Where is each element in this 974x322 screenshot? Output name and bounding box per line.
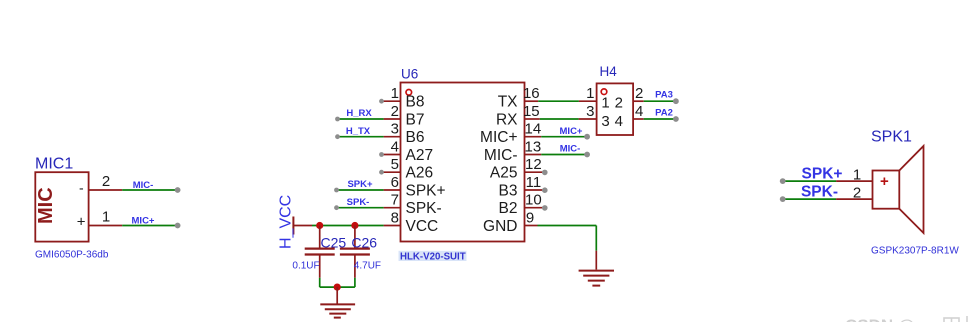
U6 pin 14 stub bbox=[525, 136, 542, 138]
svg-text:H_VCC: H_VCC bbox=[278, 195, 295, 249]
svg-text:H4: H4 bbox=[600, 64, 618, 79]
U6 pin 2 stub bbox=[384, 118, 401, 120]
junction VCC-C25 bbox=[316, 222, 323, 229]
U6 pin1 marker circle bbox=[406, 90, 412, 96]
wire net SPK- (SPK1) bbox=[783, 198, 836, 200]
svg-text:RX: RX bbox=[496, 111, 518, 128]
ground symbol (GND pin) bbox=[579, 271, 614, 286]
svg-text:B8: B8 bbox=[406, 94, 425, 111]
svg-text:MIC: MIC bbox=[35, 187, 57, 224]
svg-text:SPK-: SPK- bbox=[347, 197, 370, 208]
svg-text:SPK-: SPK- bbox=[406, 200, 442, 217]
svg-text:H_RX: H_RX bbox=[346, 108, 372, 119]
svg-text:GSPK2307P-8R1W: GSPK2307P-8R1W bbox=[871, 246, 959, 257]
U6 pin 1 dot bbox=[379, 99, 384, 104]
svg-text:MIC-: MIC- bbox=[484, 147, 518, 164]
U6 pin 10 stub bbox=[525, 207, 543, 209]
node MIC- right dot bbox=[584, 152, 590, 158]
U6 pin 15 stub bbox=[525, 118, 540, 120]
svg-text:2: 2 bbox=[391, 103, 399, 120]
MIC1 pin 2 stub bbox=[89, 189, 123, 191]
svg-text:3: 3 bbox=[601, 113, 609, 130]
svg-text:4: 4 bbox=[635, 103, 643, 120]
node MIC+ end dot bbox=[175, 223, 181, 229]
svg-text:4: 4 bbox=[615, 113, 623, 130]
wire net MIC- bbox=[122, 189, 177, 191]
U6 pin 5 stub bbox=[383, 171, 401, 173]
svg-text:4.7UF: 4.7UF bbox=[354, 261, 381, 272]
U6 pin 13 stub bbox=[525, 154, 542, 156]
svg-text:SPK+: SPK+ bbox=[406, 182, 446, 199]
svg-text:1: 1 bbox=[102, 209, 110, 226]
wire net MIC- (U6 side) bbox=[541, 154, 586, 156]
SPK1 pin 1 stub bbox=[836, 180, 872, 182]
svg-text:1: 1 bbox=[601, 95, 609, 112]
svg-text:MIC+: MIC+ bbox=[480, 129, 517, 146]
ground symbol (caps) bbox=[320, 304, 355, 317]
U6 pin 12 stub bbox=[525, 171, 543, 173]
H4 pin 2 stub bbox=[633, 100, 644, 102]
wire GND vertical green bbox=[595, 226, 597, 251]
wire net MIC+ (U6 side) bbox=[541, 136, 586, 138]
component MIC1 body bbox=[35, 172, 88, 241]
svg-text:U6: U6 bbox=[401, 67, 418, 82]
wire junction to ground bbox=[336, 287, 338, 303]
U6 pin 7 stub bbox=[384, 207, 401, 209]
svg-text:5: 5 bbox=[391, 156, 399, 173]
svg-text:VCC: VCC bbox=[406, 218, 439, 235]
svg-text:-: - bbox=[79, 180, 84, 196]
wire VCC rail bbox=[312, 225, 384, 227]
svg-text:13: 13 bbox=[525, 139, 542, 156]
wire C26 lower bbox=[354, 278, 356, 287]
node SPK+ dot bbox=[334, 188, 339, 193]
wire GND horizontal bbox=[538, 225, 597, 227]
svg-text:9: 9 bbox=[526, 210, 534, 227]
wire stub into H4 pin1 bbox=[579, 100, 597, 102]
U6 pin 4 stub bbox=[383, 154, 401, 156]
svg-text:3: 3 bbox=[391, 121, 399, 138]
U6 pin 9 stub bbox=[525, 225, 538, 227]
wire net SPK- (U6) bbox=[337, 207, 384, 209]
wire GND vertical red bbox=[595, 251, 597, 270]
svg-text:10: 10 bbox=[525, 192, 542, 209]
svg-text:4: 4 bbox=[391, 139, 399, 156]
svg-text:GND: GND bbox=[483, 218, 517, 235]
svg-text:2: 2 bbox=[853, 185, 861, 202]
wire cap ground bus bbox=[320, 286, 355, 288]
svg-text:7: 7 bbox=[391, 192, 399, 209]
svg-text:A25: A25 bbox=[490, 165, 518, 182]
U6 pin 8 stub bbox=[384, 225, 401, 227]
svg-text:A27: A27 bbox=[406, 147, 434, 164]
node PA3 dot bbox=[673, 98, 679, 104]
op chip U6 body bbox=[401, 83, 525, 242]
value HLK-V20-SUIT highlight bbox=[399, 251, 467, 261]
wire net H_TX bbox=[338, 136, 384, 138]
svg-text:MIC+: MIC+ bbox=[560, 126, 583, 137]
svg-text:H_TX: H_TX bbox=[346, 126, 371, 137]
svg-text:1: 1 bbox=[586, 85, 594, 102]
svg-text:2: 2 bbox=[635, 85, 643, 102]
connector H4 body bbox=[597, 83, 634, 135]
wire C25 lower bbox=[319, 278, 321, 287]
svg-text:PA2: PA2 bbox=[655, 107, 673, 118]
wire net MIC+ bbox=[122, 225, 177, 227]
node MIC- end dot bbox=[175, 187, 181, 193]
svg-text:PA3: PA3 bbox=[655, 90, 673, 101]
svg-text:11: 11 bbox=[526, 174, 542, 191]
svg-text:+: + bbox=[880, 173, 889, 190]
svg-text:C26: C26 bbox=[351, 235, 377, 251]
wire net SPK+ (U6) bbox=[337, 189, 384, 191]
svg-text:16: 16 bbox=[523, 85, 540, 102]
svg-text:MIC+: MIC+ bbox=[132, 215, 155, 226]
U6 pin 3 stub bbox=[384, 136, 401, 138]
power port H_VCC lead bbox=[293, 225, 312, 227]
capacitor C26 bbox=[340, 226, 370, 278]
node PA2 dot bbox=[673, 116, 679, 122]
node H_RX dot bbox=[335, 117, 340, 122]
U6 pin 4 dot bbox=[379, 152, 384, 157]
svg-text:TX: TX bbox=[498, 94, 518, 111]
node SPK- dot bbox=[334, 205, 339, 210]
capacitor C25 bbox=[305, 226, 335, 278]
svg-text:B7: B7 bbox=[406, 111, 425, 128]
svg-text:8: 8 bbox=[391, 210, 399, 227]
svg-text:0.1UF: 0.1UF bbox=[292, 260, 319, 271]
node H_TX dot bbox=[335, 134, 340, 139]
svg-text:SPK1: SPK1 bbox=[871, 129, 912, 146]
H4 pin1 marker circle bbox=[601, 89, 607, 95]
svg-text:14: 14 bbox=[525, 121, 542, 138]
H4 pin 4 stub bbox=[633, 118, 644, 120]
MIC1 pin 1 stub bbox=[89, 225, 123, 227]
U6 pin 12 dot bbox=[542, 170, 548, 176]
svg-text:3: 3 bbox=[586, 103, 594, 120]
wire net PA3 bbox=[644, 100, 675, 102]
svg-text:12: 12 bbox=[525, 156, 542, 173]
U6 pin 10 dot bbox=[542, 205, 548, 211]
svg-text:GMI6050P-36db: GMI6050P-36db bbox=[35, 250, 109, 261]
U6 pin 6 stub bbox=[384, 189, 401, 191]
svg-text:6: 6 bbox=[391, 174, 399, 191]
wire net SPK+ (SPK1) bbox=[783, 180, 836, 182]
speaker SPK1 body bbox=[873, 146, 924, 233]
U6 pin 1 stub bbox=[383, 100, 401, 102]
wire net PA2 bbox=[644, 118, 675, 120]
svg-text:SPK+: SPK+ bbox=[802, 166, 843, 183]
node MIC+ right dot bbox=[584, 134, 590, 140]
wire stub into H4 pin3 bbox=[579, 118, 597, 120]
U6 pin 11 stub bbox=[525, 189, 543, 191]
svg-text:1: 1 bbox=[391, 85, 399, 102]
wire U6 pin16 to H4 pin1 bbox=[538, 100, 579, 102]
svg-text:B3: B3 bbox=[499, 182, 518, 199]
svg-text:A26: A26 bbox=[406, 165, 434, 182]
junction VCC-C26 bbox=[351, 222, 358, 229]
wire net H_RX bbox=[338, 118, 384, 120]
SPK1 pin 2 stub bbox=[836, 198, 872, 200]
svg-text:SPK+: SPK+ bbox=[347, 179, 373, 190]
svg-text:1: 1 bbox=[853, 167, 861, 184]
svg-text:B6: B6 bbox=[406, 129, 425, 146]
svg-text:2: 2 bbox=[615, 95, 623, 112]
svg-text:CSDN @: CSDN @ bbox=[845, 316, 914, 322]
svg-text:MIC-: MIC- bbox=[560, 144, 581, 155]
svg-text:SPK-: SPK- bbox=[801, 184, 838, 201]
svg-text:HLK-V20-SUIT: HLK-V20-SUIT bbox=[400, 251, 466, 262]
junction cap ground bbox=[334, 284, 341, 291]
svg-text:B2: B2 bbox=[499, 200, 518, 217]
svg-text:2: 2 bbox=[102, 173, 110, 190]
wire U6 pin15 to H4 pin3 bbox=[540, 118, 579, 120]
power port H_VCC bar bbox=[292, 217, 294, 235]
U6 pin 11 dot bbox=[542, 187, 548, 193]
U6 pin 5 dot bbox=[379, 170, 384, 175]
node SPK+ left dot bbox=[780, 178, 786, 184]
svg-text:MIC-: MIC- bbox=[133, 180, 154, 191]
watermark CJK box glyph bbox=[944, 316, 967, 322]
node SPK- left dot bbox=[780, 196, 786, 202]
svg-text:MIC1: MIC1 bbox=[35, 156, 73, 173]
svg-text:15: 15 bbox=[523, 103, 540, 120]
U6 pin 16 stub bbox=[525, 100, 539, 102]
svg-text:+: + bbox=[77, 214, 86, 231]
